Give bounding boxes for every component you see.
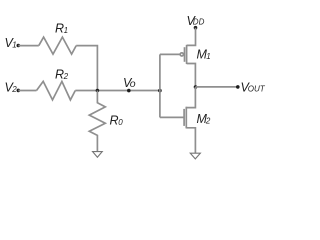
svg-text:1: 1 [206, 52, 210, 61]
resistor R2 [37, 81, 76, 100]
svg-text:DD: DD [193, 18, 205, 27]
node V2 terminal dot [17, 89, 21, 93]
node VOUT terminal dot [236, 85, 240, 89]
ground left [93, 152, 103, 158]
junction R1 R2 R0 [96, 89, 100, 93]
wire VDD to M1 source [187, 28, 196, 46]
node VDD dot [194, 26, 198, 30]
svg-text:1: 1 [64, 26, 68, 35]
wire V1 to R1 [18, 45, 39, 47]
svg-text:2: 2 [11, 85, 17, 94]
wire R2 to gate bus [75, 90, 160, 92]
label V1 [5, 36, 17, 50]
label R2 [55, 67, 69, 81]
wire R1 to node Vo [76, 46, 97, 91]
label VOUT [241, 81, 266, 95]
svg-text:2: 2 [63, 72, 69, 81]
label V2 [5, 81, 18, 95]
svg-text:1: 1 [12, 41, 16, 50]
resistor R1 [39, 37, 76, 54]
svg-text:o: o [130, 78, 136, 90]
node Vo dot [127, 89, 131, 93]
wire Vo to M2 gate [160, 116, 184, 118]
label M1 [197, 47, 211, 61]
transistor M1 [180, 45, 195, 87]
svg-text:0: 0 [118, 118, 123, 127]
wire V2 to R2 [18, 90, 36, 92]
node VOUT junction [194, 85, 198, 89]
label VDD [187, 14, 205, 28]
label R1 [55, 21, 68, 35]
svg-text:R: R [110, 114, 119, 128]
svg-text:OUT: OUT [248, 84, 266, 93]
label M2 [197, 112, 211, 126]
wire Vo to M1 gate [160, 53, 180, 55]
wire output to VOUT [196, 86, 238, 88]
svg-text:2: 2 [205, 117, 211, 126]
label R0 [110, 114, 124, 128]
junction gate bus [158, 89, 162, 93]
ground right [190, 153, 200, 159]
resistor R0 [89, 91, 105, 152]
wire gate bus [159, 54, 161, 117]
label Vo [123, 76, 136, 90]
transistor M2 [184, 87, 195, 153]
node V1 terminal dot [17, 44, 21, 48]
